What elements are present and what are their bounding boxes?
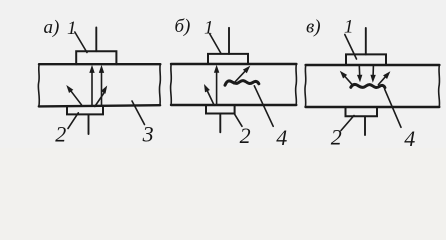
svg-text:1: 1 <box>344 17 354 38</box>
svg-text:б): б) <box>175 16 191 37</box>
svg-text:3: 3 <box>142 122 154 147</box>
svg-text:а): а) <box>44 17 60 38</box>
svg-text:1: 1 <box>204 17 214 38</box>
svg-text:2: 2 <box>331 125 342 148</box>
svg-text:4: 4 <box>404 126 415 148</box>
svg-text:2: 2 <box>240 123 251 148</box>
svg-text:4: 4 <box>276 125 287 148</box>
svg-text:в): в) <box>306 16 321 37</box>
svg-text:2: 2 <box>55 122 66 147</box>
svg-text:1: 1 <box>67 18 77 39</box>
